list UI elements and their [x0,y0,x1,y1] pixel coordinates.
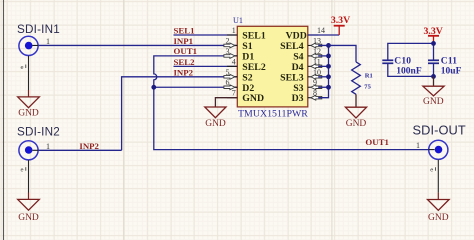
capacitor C10 [382,57,422,77]
svg-text:S3: S3 [293,83,303,94]
wire SEL1 stub (to U1 pin 1) [174,34,238,36]
svg-text:e: e [21,65,24,71]
pin 10 SEL3 [280,68,322,84]
wire SDI-IN2 to riser [38,149,121,151]
wire bus pins 13-8 tied together [318,45,328,97]
svg-text:S1: S1 [242,41,252,52]
ground GND (SDI-IN2) [18,193,40,223]
wire SEL2 stub (to U1 pin 4) [174,65,238,67]
svg-text:1: 1 [416,141,420,150]
power 3.3V (VDD) [331,15,350,35]
svg-text:SEL1: SEL1 [174,26,195,36]
svg-text:e: e [21,168,24,174]
svg-text:SEL2: SEL2 [242,62,266,73]
svg-text:SDI-IN2: SDI-IN2 [17,125,60,138]
pin 4 SEL2 [227,57,266,73]
svg-text:INP1: INP1 [174,36,194,46]
sheet border line [3,0,5,240]
svg-text:VDD: VDD [286,31,307,42]
wire OUT1 (U1 pin 3 down and across to SDI-OUT, hop over INP2) [154,56,429,150]
svg-text:SEL4: SEL4 [280,41,304,52]
pin 13 SEL4 [280,36,322,52]
svg-text:C10: C10 [394,57,411,67]
svg-text:SEL1: SEL1 [242,31,266,42]
svg-text:D1: D1 [242,51,254,62]
wire INP1 (SDI-IN1 to U1 pin 2) [38,44,237,46]
svg-text:SDI-OUT: SDI-OUT [413,123,466,138]
svg-text:D3: D3 [292,93,304,104]
wire pin14 to 3.3V [308,34,339,36]
svg-text:3.3V: 3.3V [424,26,443,37]
svg-text:4: 4 [232,57,236,66]
pin 7 GND [227,89,264,105]
junction D1/D2/OUT1 [151,85,156,90]
svg-text:1: 1 [232,26,236,35]
ground GND (R1) [345,107,366,129]
svg-text:7: 7 [232,89,236,98]
svg-text:GND: GND [428,213,449,223]
svg-text:75: 75 [364,84,371,91]
svg-text:U1: U1 [233,16,243,25]
pin 12 S4 [293,47,322,63]
svg-text:D4: D4 [292,62,304,73]
capacitor C11 [428,43,462,76]
svg-text:GND: GND [18,213,39,223]
ground GND (SDI-IN1) [18,90,40,119]
svg-text:3.3V: 3.3V [331,15,350,26]
wire capacitor top rail [388,43,434,59]
svg-text:TMUX1511PWR: TMUX1511PWR [238,109,308,120]
wire caps to ground [433,76,435,86]
ground GND (U1 pin 7) [205,107,226,129]
wire pin9 to bus [318,86,328,88]
svg-text:SDI-IN1: SDI-IN1 [17,23,60,36]
ground GND (decoupling) [423,86,444,107]
svg-text:1: 1 [46,37,50,46]
wire pin10 to bus [318,76,328,78]
svg-text:D2: D2 [242,83,254,94]
wire R1 to ground [355,94,357,107]
svg-text:GND: GND [423,97,444,107]
op IC U1 body [237,26,307,107]
svg-text:S2: S2 [242,72,252,83]
svg-text:14: 14 [317,26,325,35]
wire pin12 to bus [318,55,328,57]
pin 9 S3 [293,78,322,94]
major grid line B [331,0,333,240]
svg-text:SEL2: SEL2 [174,57,196,67]
junction pin13 [326,43,331,48]
svg-text:C11: C11 [441,57,457,67]
wire capacitor bottom rail [388,64,434,77]
pin 1 SEL1 [227,26,266,42]
resistor R1 [352,62,373,94]
svg-text:e: e [430,168,433,174]
svg-text:OUT1: OUT1 [174,46,197,56]
wire D2 (junction to U1 pin 6) [154,86,238,88]
pin 14 VDD [286,26,325,42]
connector SDI-OUT [413,123,466,193]
pin 5 S2 [224,68,253,84]
svg-text:GND: GND [205,119,226,129]
pin 2 S1 [224,36,253,52]
pin 8 D3 [292,89,322,105]
wire bus to R1 [329,45,357,61]
connector SDI-IN2 [17,125,60,192]
pin 6 D2 [224,78,254,94]
svg-text:S4: S4 [293,51,303,62]
svg-text:1: 1 [46,142,50,151]
svg-text:GND: GND [18,109,39,119]
svg-text:SEL3: SEL3 [280,72,304,83]
svg-text:OUT1: OUT1 [365,137,388,147]
svg-text:R1: R1 [365,73,373,80]
junction 3.3V/C11 top [431,41,436,46]
svg-text:INP2: INP2 [79,141,99,151]
svg-text:GND: GND [242,93,264,104]
wire pin11 to bus [318,65,328,67]
junction pin10 [326,74,331,79]
ground GND (SDI-OUT) [428,193,450,223]
wire pin7 to ground [215,98,237,107]
pin 11 D4 [292,57,322,73]
connector SDI-IN1 [17,23,60,90]
power 3.3V (decoupling) [424,26,443,43]
pin 3 D1 [224,47,254,63]
junction pin9 [326,85,331,90]
major grid line A [123,0,125,240]
junction pin12 [326,54,331,59]
svg-text:INP2: INP2 [174,68,194,78]
svg-text:GND: GND [346,119,367,129]
wire INP2 (riser from SDI-IN2 and run to U1 pin 5) [122,77,238,151]
junction pin11 [326,64,331,69]
junction C11 bottom/GND [431,74,436,79]
svg-text:100nF: 100nF [396,67,422,77]
svg-text:10uF: 10uF [441,67,462,77]
